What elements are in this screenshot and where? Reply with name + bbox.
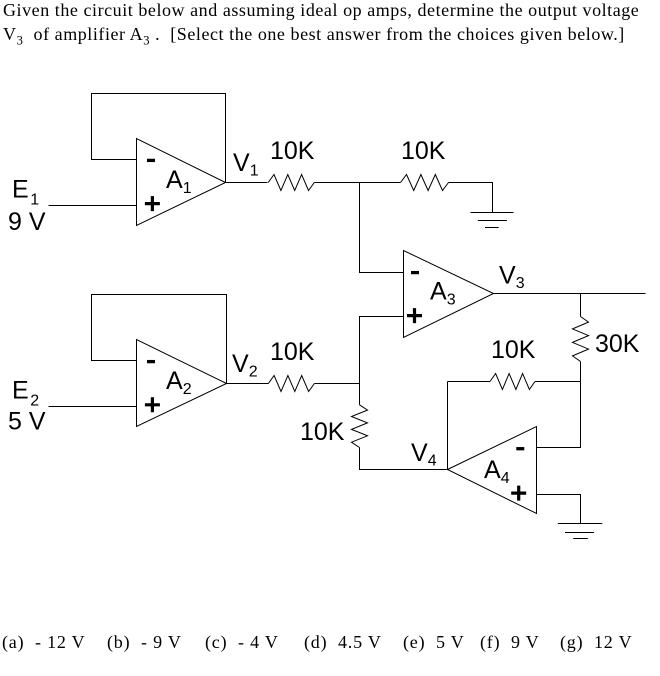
wire V2 output: [227, 383, 269, 385]
wire E1 input: [49, 205, 137, 207]
svg-text:10K: 10K: [491, 336, 536, 364]
wire A2 feedback loop: [92, 295, 227, 384]
A2 plus sign: [145, 397, 160, 412]
op-amp A3: [404, 251, 494, 338]
svg-text:5 V: 5 V: [8, 408, 46, 436]
wire A4 feedback horizontal left: [448, 381, 491, 383]
resistor 10K (V1 to node A): [268, 175, 314, 191]
resistor 10K (V2 to node B): [268, 376, 314, 392]
resistor 10K (node A to ground): [401, 175, 449, 191]
svg-text:V4: V4: [411, 439, 437, 470]
wire A1 feedback loop: [92, 94, 226, 183]
wire 10K to V4 node: [360, 448, 448, 470]
wire to node B: [314, 383, 359, 385]
wire A3 non-inverting input to node B: [360, 317, 404, 384]
ground top right: [471, 213, 514, 228]
svg-text:9 V: 9 V: [8, 208, 46, 236]
svg-text:10K: 10K: [270, 338, 315, 366]
svg-text:V1: V1: [233, 149, 259, 180]
wire V3 node down to 30K: [580, 294, 582, 317]
svg-text:E2: E2: [12, 377, 39, 410]
svg-text:30K: 30K: [595, 330, 640, 358]
wire A4 plus input to ground: [537, 495, 581, 524]
svg-text:V2: V2: [232, 350, 258, 381]
ground bottom right: [558, 524, 603, 539]
resistor 10K feedback A4: [490, 374, 535, 390]
op-amp A2: [137, 340, 227, 427]
resistor 10K vertical (node B to V4): [352, 405, 368, 448]
A4 minus sign: [516, 447, 524, 450]
A3 plus sign: [407, 308, 422, 323]
wire V1 output: [226, 182, 268, 184]
wire node A: [314, 182, 400, 184]
wire A4 feedback vertical: [447, 382, 449, 470]
A2 minus sign: [147, 360, 155, 363]
svg-text:V3: V3: [499, 262, 525, 293]
question text: [3, 0, 660, 53]
op-amp A4 (points left): [448, 427, 537, 514]
wire to ground top right: [449, 183, 493, 213]
op-amp A1: [137, 139, 226, 226]
A1 minus sign: [147, 159, 155, 162]
A1 plus sign: [145, 196, 160, 211]
svg-text:10K: 10K: [300, 418, 345, 446]
svg-text:10K: 10K: [270, 137, 315, 165]
wire V3 output: [494, 293, 646, 295]
resistor 30K: [573, 317, 589, 362]
wire node A to A3 inverting input: [360, 183, 404, 273]
wire E2 input: [49, 406, 137, 408]
wire 30K to A4 inverting input: [537, 362, 581, 448]
A3 minus sign: [411, 271, 419, 274]
wire node B down: [359, 384, 361, 405]
answer choices: [0, 631, 660, 633]
svg-text:10K: 10K: [401, 137, 446, 165]
svg-text:E1: E1: [12, 176, 39, 209]
wire A4 feedback horizontal right: [535, 381, 581, 383]
A4 plus sign: [511, 486, 526, 501]
